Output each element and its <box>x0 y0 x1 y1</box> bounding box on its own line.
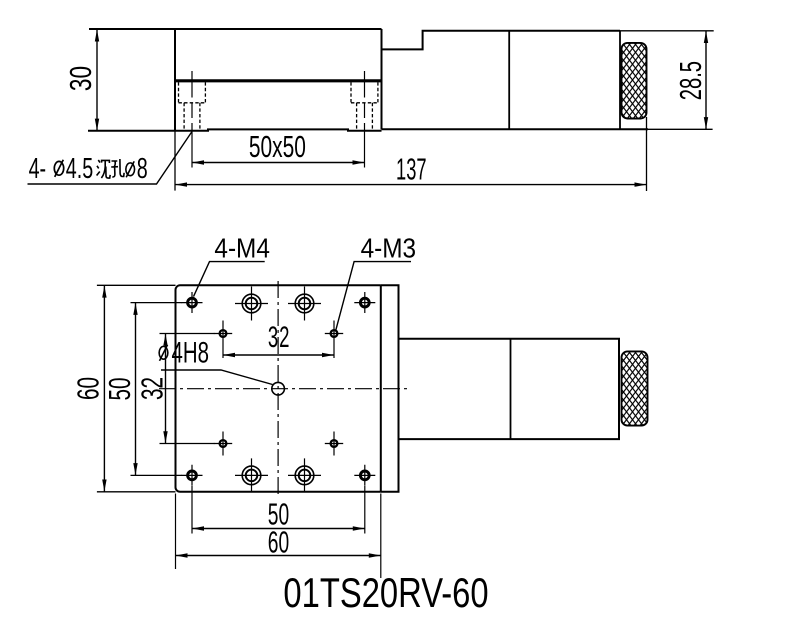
counterbore label 4-phi4.5 chenkong phi8 <box>29 153 148 185</box>
side view: bold table surface line <box>175 79 382 82</box>
side view: section divider <box>508 31 510 130</box>
svg-text:3: 3 <box>268 321 278 355</box>
dimension 32 (plan top, between M3 holes) <box>223 354 334 356</box>
svg-text:28.5: 28.5 <box>673 61 709 100</box>
M4 corner hole bottom-left <box>182 465 203 486</box>
plan view: vertical centerline <box>277 281 279 497</box>
svg-text:2: 2 <box>279 321 289 355</box>
dimension 137 extension lines <box>175 117 647 191</box>
plan view: knurled knob <box>622 351 648 425</box>
center hole phi4H8 <box>272 382 285 395</box>
side view: left body outline <box>89 29 382 131</box>
svg-text:60: 60 <box>268 526 289 560</box>
svg-text:50x50: 50x50 <box>249 129 306 164</box>
hanzi chen (sink) <box>97 160 111 178</box>
plan view: horizontal centerline <box>159 388 411 390</box>
side view: body right edge before knob <box>619 31 621 130</box>
dimension 50 extension lines <box>131 303 183 476</box>
dimension 50 (plan left) <box>135 303 137 476</box>
svg-text:4-M3: 4-M3 <box>361 232 416 264</box>
dimension 32 extension lines <box>160 334 215 444</box>
svg-text:01TS20RV-60: 01TS20RV-60 <box>283 569 488 616</box>
M4 corner hole top-left <box>182 292 203 313</box>
counterbore label underline and leader <box>28 132 193 185</box>
dimension 137 <box>175 184 647 186</box>
M6 hole top-left <box>235 287 268 321</box>
svg-text:137: 137 <box>396 153 427 187</box>
M4 corner hole bottom-right <box>354 465 375 486</box>
svg-text:32: 32 <box>134 377 169 400</box>
svg-text:30: 30 <box>62 66 97 91</box>
M4 corner hole top-right <box>354 292 375 313</box>
plan view: square outline with rounded left corners <box>175 285 380 492</box>
svg-text:60: 60 <box>70 377 105 400</box>
side view: bottom edge with feet <box>88 129 382 130</box>
dimension 50x50 <box>192 162 365 164</box>
side view: knurled knob <box>622 43 647 119</box>
svg-text:4H8: 4H8 <box>172 337 209 370</box>
M6 hole bottom-right <box>288 458 321 492</box>
dimension 60 bottom extension lines <box>176 494 381 579</box>
svg-text:4.5: 4.5 <box>66 153 93 185</box>
svg-text:4-M4: 4-M4 <box>214 232 269 264</box>
M6 hole bottom-left <box>235 458 268 492</box>
side view: right counterbore hole (dashed) <box>351 82 378 131</box>
plan top edge left extension <box>97 284 176 286</box>
svg-text:8: 8 <box>137 153 148 185</box>
dimension 60 (plan left) <box>103 285 105 492</box>
dimension 28.5 (right) <box>620 31 714 130</box>
M3 hole top-right <box>325 321 343 359</box>
M3 hole bottom-right <box>325 432 343 456</box>
side view: left hole centerline <box>191 71 193 168</box>
dimension 30 (left) <box>96 29 98 131</box>
side view: right hole centerline <box>364 71 366 168</box>
M3 hole bottom-left <box>214 432 232 456</box>
dimension 32 (plan left) <box>165 334 167 444</box>
side view: right section bottom line <box>382 128 649 130</box>
dimension 60 (plan bottom) <box>176 555 381 557</box>
dimension 50 bottom extension lines <box>192 486 365 534</box>
side view: right section step outline <box>382 31 621 50</box>
svg-text:4-: 4- <box>29 153 47 185</box>
svg-text:50: 50 <box>102 377 137 400</box>
plan view: arm <box>399 339 620 439</box>
hanzi kong (hole) <box>111 159 124 177</box>
plan view: flange <box>381 285 399 492</box>
plan bottom edge left extension <box>97 491 176 493</box>
plan view: arm divider <box>510 339 512 439</box>
dimension 50 (plan bottom) <box>192 528 365 530</box>
side view: left counterbore hole (dashed) <box>179 82 206 131</box>
M3 hole top-left <box>214 321 232 359</box>
M6 hole top-right <box>288 287 321 321</box>
